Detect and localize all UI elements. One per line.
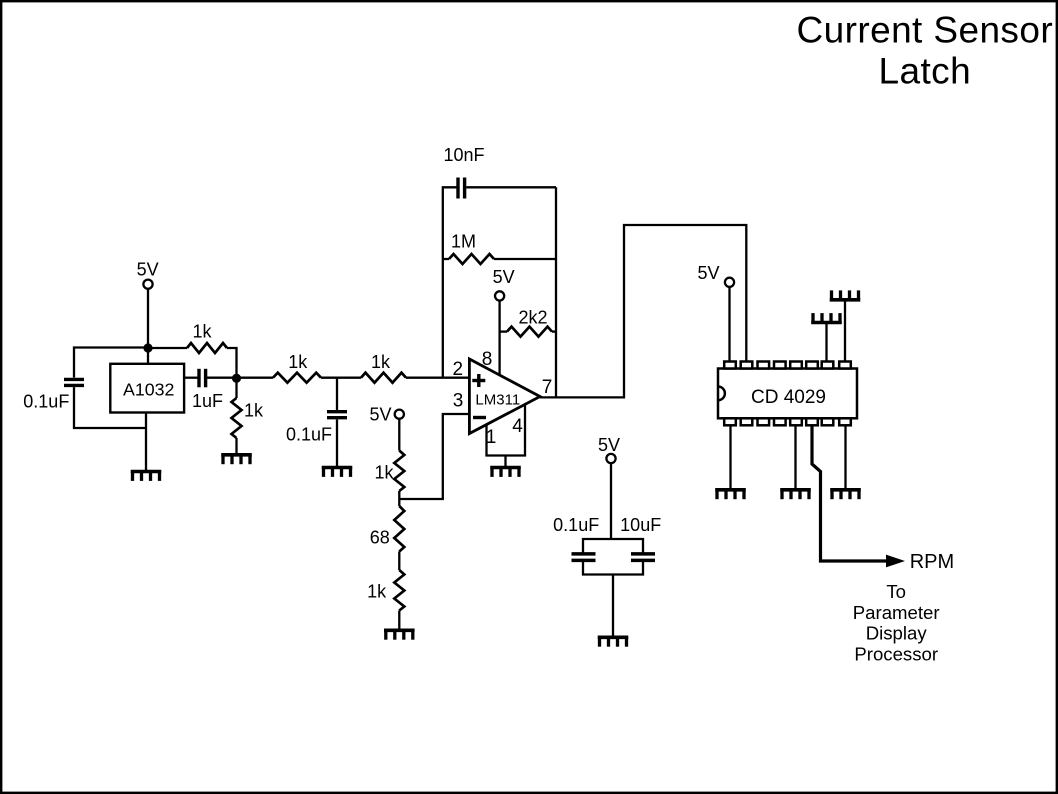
wire node B to first series 1k [237,377,274,379]
wire pin 4 stub [524,405,526,456]
wire node A to A1032 top pin [147,348,149,364]
svg-text:1uF: 1uF [192,391,223,411]
5V terminal (divider) circle [395,410,404,419]
resistor 2k2 R6 [500,327,556,337]
resistor 1k (divider top) [394,419,404,499]
svg-text:To: To [886,581,906,602]
op-amp U2 LM311 triangle [469,359,540,434]
ground (below CD4029 pin 8) [830,490,861,499]
ground (under LM311 pins 1,4) [490,468,521,477]
5V terminal (decoupling) circle [606,454,615,463]
arrowhead RPM [886,555,905,568]
wire bottom rail to ground [612,575,614,638]
svg-text:1k: 1k [244,401,264,421]
resistor 1k (divider bottom) [394,570,404,630]
wire top pin 8 to inverted ground [844,300,846,362]
inverted ground (above pin 8) [830,290,861,299]
svg-text:Latch: Latch [879,50,972,91]
wire cap top rail [583,539,643,553]
svg-text:10nF: 10nF [443,145,484,165]
wire bottom pin 5 to ground [794,425,796,490]
wire RPM output from bottom pin 6 [812,425,887,561]
capacitor 10uF [631,554,655,561]
wire 5V terminal to node A [147,289,149,348]
CD4029 top pins [724,362,851,369]
svg-text:0.1uF: 0.1uF [553,515,599,535]
capacitor 10nF C4 [458,178,465,199]
svg-text:1M: 1M [451,232,476,252]
resistor 1k (node B to ground) [232,378,242,455]
svg-text:1k: 1k [374,463,394,483]
wire feedback right rail [555,187,557,397]
capacitor 1uF C2 [199,369,206,388]
wire 5V to CD4029 pin 1 (top) [728,287,730,362]
wire pin 3 input [399,414,469,499]
svg-text:RPM: RPM [910,551,954,573]
svg-text:3: 3 [453,390,464,411]
svg-text:68: 68 [370,528,390,548]
capacitor 0.1uF (decoupling) [572,554,596,561]
5V terminal (LM311) circle [495,291,504,300]
wire node A to left cap top [74,348,148,378]
capacitor 0.1uF (mid) [327,412,347,418]
svg-text:0.1uF: 0.1uF [286,425,332,445]
svg-text:5V: 5V [493,267,515,287]
wire A1032 output to 1uF cap [184,377,197,379]
svg-text:1k: 1k [288,352,308,372]
wire second 1k to LM311 pin 2 [406,377,469,379]
op-amp plus input mark [472,374,485,387]
wire 5V down to cap rail [610,463,612,539]
CD4029 bottom pins [724,418,851,425]
capacitor 0.1uF (left) [64,379,84,385]
A1032 hall sensor U1 box [110,364,184,413]
wire bottom pin 8 to ground [844,425,846,490]
wire LM311 output pin 7 to CD4029 [540,225,746,397]
svg-text:Display: Display [866,623,928,644]
inverted ground (above pin 7) [811,313,842,322]
wire cap bottom rail [583,561,643,574]
resistor 68 (divider middle) [394,499,404,570]
wire pin 1 stub [485,425,487,456]
wire 10nF to right rail [466,186,556,188]
ground (under decoupling caps) [598,637,629,646]
wire left cap bottom to A1032 ground pin [74,387,146,428]
resistor 1M R5 [443,254,556,264]
resistor 1k (series second) [361,373,406,383]
wire mid cap to ground [336,419,338,467]
resistor 1k (series first) [273,373,321,383]
svg-text:Parameter: Parameter [853,602,940,623]
svg-text:8: 8 [482,349,493,370]
svg-text:2: 2 [453,359,464,380]
svg-text:CD 4029: CD 4029 [751,387,826,408]
wire 5V to LM311 pin 8 [498,301,500,375]
svg-text:10uF: 10uF [620,515,661,535]
ground (below CD4029 pin 5) [780,490,811,499]
svg-text:1k: 1k [371,352,391,372]
svg-text:Current Sensor: Current Sensor [797,10,1054,51]
op-amp minus input mark [473,416,486,419]
wire node C down to mid cap [336,378,338,410]
wire top pin 7 to inverted ground [825,323,827,362]
svg-text:1k: 1k [192,322,212,342]
CD4029 notch [718,387,725,401]
wire feedback left rail [443,187,457,377]
ground (below CD4029 pin 1) [715,490,746,499]
wire to ground stub [504,456,506,468]
svg-text:0.1uF: 0.1uF [23,392,69,412]
wire to node C [321,377,361,379]
svg-text:4: 4 [512,416,523,437]
ground (under divider) [384,630,415,639]
ground (under mid cap) [322,468,353,477]
wire bottom pin 1 to ground [729,425,731,490]
ground (under node B 1k) [221,455,252,464]
svg-text:LM311: LM311 [475,392,520,409]
wire pin1-pin4 bottom link [485,454,526,456]
svg-text:5V: 5V [697,263,719,283]
svg-text:5V: 5V [137,260,159,280]
node A junction dot [143,343,152,352]
wire A1032 bottom pin to ground [145,413,147,472]
5V terminal (CD4029) circle [725,278,734,287]
5V supply terminal (left) circle [143,280,152,289]
svg-text:5V: 5V [598,435,620,455]
wire 1uF to node B [207,377,237,379]
svg-text:7: 7 [542,377,553,398]
svg-text:2k2: 2k2 [518,307,547,327]
node B junction dot [232,374,241,383]
svg-text:5V: 5V [369,405,391,425]
svg-text:1k: 1k [367,581,387,601]
IC U3 CD4029 body [718,369,857,419]
svg-text:A1032: A1032 [123,380,174,400]
resistor 1k (top, node A to node B) [148,343,237,379]
svg-text:Processor: Processor [854,643,938,664]
ground (under A1032) [131,472,162,481]
